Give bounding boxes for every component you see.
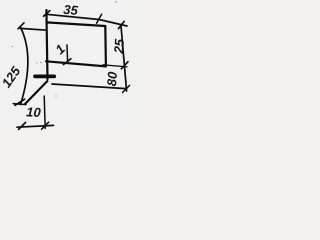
thick sheet bar xyxy=(35,75,54,79)
bottom extension line (80 dim) xyxy=(52,84,126,89)
dimension line 10 (bottom) xyxy=(17,125,54,127)
svg-text:80: 80 xyxy=(104,70,120,86)
profile right edge xyxy=(104,26,107,66)
tick at flange corner xyxy=(18,23,24,29)
profile top edge xyxy=(47,22,106,26)
dimension line 125 (left, bowed) xyxy=(21,28,28,104)
svg-text:10: 10 xyxy=(26,104,42,120)
tick right of 10 xyxy=(42,122,49,129)
right vertical dimension line (26/80) xyxy=(121,26,127,91)
profile bottom edge xyxy=(46,61,106,66)
top-left flange xyxy=(21,28,47,30)
tick left of 10 xyxy=(19,122,26,129)
tick at bottom of 125 xyxy=(15,99,25,105)
diagonal hook xyxy=(25,81,47,104)
dimension line 35 (top, slanted) xyxy=(47,14,128,26)
svg-text:25: 25 xyxy=(111,38,127,55)
extension line from lower right corner xyxy=(103,65,127,67)
left vertical extension/profile edge xyxy=(46,10,47,79)
callout 1 tick xyxy=(63,59,70,65)
tick right end of 35 xyxy=(97,14,102,23)
tick top (26) xyxy=(118,21,124,28)
callout 1 leader xyxy=(66,45,69,62)
tick mid (26/80) xyxy=(121,62,128,69)
right extension line of 10 xyxy=(44,96,45,129)
tick bottom (80) xyxy=(123,85,130,92)
tick left end of 35 xyxy=(44,11,50,17)
corner ink blob xyxy=(20,27,22,29)
bottom extension of 125 xyxy=(13,104,26,105)
